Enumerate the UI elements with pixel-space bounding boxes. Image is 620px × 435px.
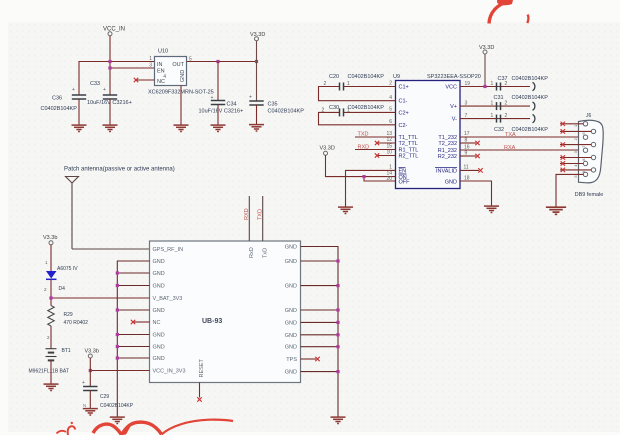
svg-text:TXD: TXD [258,209,264,220]
svg-text:18: 18 [464,176,470,182]
connector J6 DB9 female [575,113,604,198]
svg-text:DB9 female: DB9 female [575,192,604,198]
svg-text:V-: V- [452,117,457,123]
svg-text:INVALID: INVALID [436,168,457,174]
capacitor C20 [319,74,396,101]
svg-text:GND: GND [285,308,297,314]
wire TPS stub [301,358,317,360]
no-connect X [197,397,201,401]
svg-text:U9: U9 [393,74,400,80]
svg-text:C1+: C1+ [399,85,409,91]
junction [216,60,219,63]
svg-text:+: + [103,87,106,93]
svg-text:10: 10 [386,150,392,156]
svg-text:C0402B104KP: C0402B104KP [512,76,549,82]
svg-text:1: 1 [491,101,494,107]
svg-text:TxD: TxD [263,248,269,258]
svg-text:2: 2 [47,335,50,340]
svg-text:1: 1 [347,81,350,87]
svg-text:2: 2 [389,81,392,87]
svg-text:T2_232: T2_232 [438,141,457,147]
svg-text:C32: C32 [494,127,504,133]
power port V3.3b (C29) [85,349,99,359]
svg-text:1: 1 [573,124,578,127]
junction [336,284,339,287]
wire R1_TTL / net label RXD [355,144,396,151]
wire OUT rail [187,61,257,63]
svg-text:RXD: RXD [358,144,370,150]
svg-text:3: 3 [573,150,578,153]
wire NC stub [136,79,155,81]
svg-text:C0402B104KP: C0402B104KP [268,109,305,115]
wire [50,360,52,383]
ground [174,125,189,131]
svg-text:Patch antenna(passive or activ: Patch antenna(passive or active antenna) [64,167,175,173]
svg-text:20: 20 [386,176,392,182]
wire NC stub [134,321,150,323]
ground [44,384,59,390]
ground [211,125,226,131]
svg-text:4: 4 [389,95,392,101]
svg-text:1: 1 [45,260,48,265]
svg-text:RXA: RXA [504,145,516,151]
wire R2_TTL stub [375,150,396,158]
watermark arc top [489,0,528,24]
wire DB9 pin5 to ground [556,174,583,206]
ground [331,417,346,423]
wire R2_232 stub [460,151,480,159]
ground [249,125,264,131]
svg-text:5: 5 [389,107,392,113]
power port V3.3D [250,32,265,41]
svg-text:6: 6 [389,119,392,125]
svg-text:C30: C30 [329,105,339,111]
svg-text:2: 2 [322,108,325,114]
svg-text:T2_TTL: T2_TTL [399,141,418,147]
power port V3.3D (U9 left) [320,146,335,156]
svg-text:OUT: OUT [172,62,184,68]
wire stubs J6 pins with no-connect marks [560,124,591,170]
svg-text:GND: GND [285,345,297,351]
wire U10 GND [180,86,182,125]
svg-text:GND: GND [153,271,165,277]
wire EN [110,67,155,69]
svg-text:V_BAT_3V3: V_BAT_3V3 [153,296,183,302]
svg-text:GND: GND [180,70,186,82]
svg-text:GND: GND [285,259,297,265]
svg-text:N: N [83,403,86,408]
capacitor C35 [249,41,304,124]
svg-text:2: 2 [324,81,327,87]
svg-text:IN: IN [157,62,163,68]
wire left GND bus [117,261,149,417]
capacitor C32 (V- row) [460,113,548,133]
svg-text:GND: GND [285,370,297,376]
svg-text:C31: C31 [494,95,504,101]
wire [50,280,52,306]
svg-text:TPS: TPS [286,357,297,363]
svg-text:10uF/16V C3216+: 10uF/16V C3216+ [87,100,132,106]
svg-text:GND: GND [153,333,165,339]
svg-text:TXD: TXD [358,132,369,138]
capacitor C33 [87,81,132,125]
svg-text:470 R0402: 470 R0402 [64,320,89,326]
svg-text:2: 2 [44,287,47,292]
svg-text:VCC: VCC [445,85,457,91]
capacitor C31 (V+ row) [460,95,548,110]
svg-text:C33: C33 [90,81,100,87]
no-connect X [131,320,135,324]
svg-text:V+: V+ [450,104,457,110]
svg-text:VCC_IN_3V3: VCC_IN_3V3 [153,369,186,375]
svg-text:C0402B104KP: C0402B104KP [348,105,385,111]
junction [336,345,339,348]
resistor R29 [47,306,88,341]
battery BT1 [29,348,71,375]
svg-text:1: 1 [389,165,392,171]
svg-text:GND: GND [445,180,457,186]
svg-text:GND: GND [153,259,165,265]
svg-text:C0402B104KP: C0402B104KP [100,403,134,409]
junction [49,296,52,299]
svg-text:D4: D4 [59,286,66,292]
svg-text:C36: C36 [52,96,62,102]
power port V3.3b [43,235,57,245]
junction [116,308,119,311]
IC U9 SP3223EEA [393,74,481,189]
svg-text:V3.3D: V3.3D [320,146,335,152]
no-connect X on NC [134,78,138,82]
svg-text:V3.3b: V3.3b [43,235,57,241]
wire U9 GND to ground [460,176,492,206]
svg-text:V3.3D: V3.3D [479,45,494,51]
junction [336,333,339,336]
capacitor C36 [41,87,87,125]
svg-text:5: 5 [573,175,578,178]
junction [116,345,119,348]
junction [89,369,92,372]
wire IN rail [79,62,155,96]
regulator U10 XC6209F332MRN [148,49,214,96]
svg-text:C0402B104KP: C0402B104KP [348,74,385,80]
svg-text:GND: GND [285,245,297,251]
capacitor C30 [319,105,396,125]
svg-text:4: 4 [573,164,578,167]
wire VCC row [460,86,530,88]
wire T1_232 / net label TXA [460,131,583,138]
svg-text:OFF: OFF [399,180,411,186]
svg-text:NC: NC [153,320,161,326]
svg-text:C0402B104KP: C0402B104KP [41,106,78,112]
svg-text:4: 4 [163,74,166,80]
antenna [66,177,79,250]
wire EN to ground [346,165,396,207]
wire VCC_IN vertical [109,36,111,95]
svg-text:+: + [211,95,214,101]
junction [255,60,258,63]
svg-text:A6075 IV: A6075 IV [57,266,78,272]
junction [336,321,339,324]
ground [338,207,353,213]
svg-text:C0402B104KP: C0402B104KP [512,95,549,101]
wire RXD top pin [248,196,250,241]
svg-text:+: + [82,380,85,386]
wire T2_TTL stub [375,137,396,145]
svg-text:GND: GND [285,333,297,339]
capacitor C37 [465,76,549,91]
junction [483,85,486,88]
ground [83,409,98,415]
svg-text:U10: U10 [158,49,168,55]
wire right GND bus [301,247,339,417]
svg-text:R2_232: R2_232 [438,154,457,160]
svg-text:GND: GND [153,345,165,351]
svg-text:TXA: TXA [505,132,516,138]
wire [50,326,52,349]
power port V3.3D (U9 VCC) [479,45,494,87]
wire ON / OFF [326,155,396,182]
svg-text:BT1: BT1 [62,348,71,354]
svg-text:C2+: C2+ [399,111,409,117]
svg-text:RESET: RESET [199,359,205,378]
wire [50,245,52,271]
svg-text:C34: C34 [227,102,237,108]
svg-text:C35: C35 [268,102,278,108]
wire INVALID stub [460,165,483,173]
capacitor C34 [199,62,244,125]
svg-text:11: 11 [464,165,469,171]
wire TXD top pin [262,196,264,241]
svg-text:1: 1 [491,113,494,119]
svg-text:+: + [72,87,75,93]
wire T2_232 stub [460,138,480,146]
svg-text:M9621FL11B BAT: M9621FL11B BAT [29,369,69,375]
ground [103,125,118,131]
svg-text:7: 7 [465,113,468,119]
svg-text:GND: GND [153,284,165,290]
ground [484,206,499,212]
svg-text:12: 12 [386,137,392,143]
svg-text:V3.3b: V3.3b [85,349,99,355]
junction [336,259,339,262]
svg-text:VCC_IN: VCC_IN [103,27,125,33]
wire VCC_IN_3V3 [90,370,149,372]
svg-text:SP3223EEA-SSOP20: SP3223EEA-SSOP20 [427,74,481,80]
svg-text:RxD: RxD [249,247,255,258]
svg-text:2: 2 [505,101,508,107]
pin number labels J6 [573,124,586,178]
svg-text:+: + [249,95,252,101]
svg-text:19: 19 [465,81,471,87]
ground [72,125,87,131]
svg-text:J6: J6 [586,113,592,119]
svg-text:R2_TTL: R2_TTL [399,154,419,160]
svg-text:C2-: C2- [399,123,408,129]
svg-text:GPS_RF_IN: GPS_RF_IN [153,247,184,253]
wire R1_232 / net label RXA [460,145,583,151]
svg-text:2: 2 [505,113,508,119]
svg-text:C1-: C1- [399,99,408,105]
watermark scribble bottom [57,420,234,435]
svg-text:C0402B104KP: C0402B104KP [512,127,549,133]
svg-text:8: 8 [465,138,468,144]
svg-text:9: 9 [465,151,468,157]
svg-text:GND: GND [153,308,165,314]
junction [336,370,339,373]
svg-text:C20: C20 [329,74,339,80]
no-connect X [315,357,319,361]
junction [116,271,119,274]
diode D4 [44,260,78,292]
svg-text:R29: R29 [64,312,73,318]
svg-text:GND: GND [285,284,297,290]
junction [362,175,365,178]
wire V_BAT_3V3 [51,297,150,299]
junction [116,356,119,359]
ground [546,207,566,214]
junction [336,308,339,311]
junction [108,60,111,63]
svg-text:GND: GND [285,320,297,326]
svg-text:1: 1 [491,81,494,87]
junction [116,284,119,287]
svg-text:C29: C29 [100,394,109,400]
svg-text:3: 3 [149,63,152,69]
wire RESET stub [199,383,201,398]
capacitor C29 [82,380,134,409]
svg-text:10uF/16V C3216+: 10uF/16V C3216+ [199,109,244,115]
svg-text:UB-93: UB-93 [202,318,222,325]
junction [108,66,111,69]
svg-text:2: 2 [573,137,578,140]
module U8 UB-93 [150,241,301,383]
svg-text:17: 17 [464,131,470,137]
svg-text:1: 1 [149,56,152,62]
ground [110,417,125,423]
svg-text:RXD: RXD [244,208,250,220]
svg-text:GND: GND [153,356,165,362]
junction [116,333,119,336]
svg-text:C37: C37 [498,76,508,82]
svg-text:3: 3 [465,101,468,107]
power port VCC_IN [103,27,125,36]
wire T1_TTL / net label TXD [355,131,396,138]
wire [89,358,91,387]
wire antenna to GPS_RF_IN [72,248,150,250]
